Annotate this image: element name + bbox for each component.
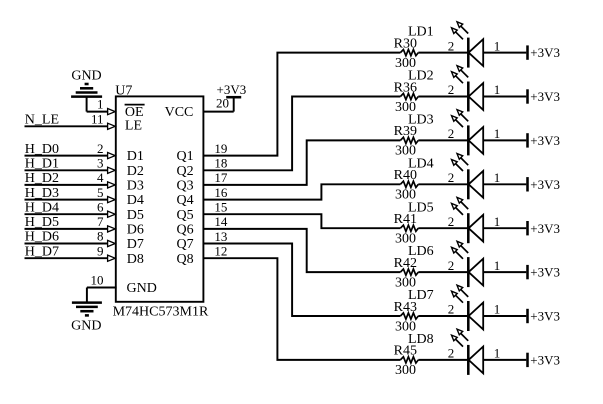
net label N_LE — [25, 112, 59, 127]
resistor R42 — [400, 269, 418, 275]
svg-text:1: 1 — [494, 302, 501, 317]
svg-text:+3V3: +3V3 — [530, 265, 560, 280]
power +3V3 row 2 — [526, 89, 529, 103]
svg-text:2: 2 — [448, 258, 455, 273]
svg-text:U7: U7 — [115, 84, 132, 99]
wire Q2 pin 18 to R36 — [203, 97, 401, 171]
R36 value 300 — [395, 100, 416, 115]
wire R30 to LD1 — [418, 52, 467, 54]
svg-text:H_D6: H_D6 — [25, 230, 59, 245]
svg-text:LD5: LD5 — [408, 200, 434, 215]
wire pin 10 to ground — [87, 287, 117, 289]
U7 part number M74HC573M1R — [113, 305, 209, 320]
LD3 label — [408, 113, 434, 128]
net label H_D2 — [25, 171, 59, 186]
pin 19 number label — [214, 141, 227, 156]
net label H_D5 — [25, 215, 59, 230]
svg-text:+3V3: +3V3 — [530, 221, 560, 236]
power +3V3 row 6 — [526, 265, 529, 279]
pin 16 number label — [214, 185, 228, 200]
svg-text:Q8: Q8 — [176, 252, 193, 267]
svg-text:+3V3: +3V3 — [530, 45, 560, 60]
resistor R30 — [400, 50, 418, 56]
pin 10 number label — [91, 273, 104, 288]
D1 pin name — [127, 149, 144, 164]
svg-text:Q7: Q7 — [176, 237, 193, 252]
LE pin name — [125, 119, 142, 134]
pin 9 D8 input arrowhead — [108, 255, 116, 261]
pin 6 number label — [97, 199, 104, 214]
R30 label — [394, 36, 417, 51]
svg-text:LD1: LD1 — [408, 25, 434, 40]
wire Q4 pin 16 to R40 — [203, 184, 401, 199]
resistor R43 — [400, 313, 418, 319]
+3V3 label row 3 — [530, 133, 560, 148]
svg-text:2: 2 — [448, 214, 455, 229]
pin 5 number label — [97, 185, 104, 200]
svg-text:Q5: Q5 — [176, 208, 193, 223]
pin 11 LE input arrowhead — [108, 123, 116, 129]
net label H_D0 — [25, 142, 59, 157]
pin 1 number label — [97, 97, 104, 112]
svg-text:H_D2: H_D2 — [25, 171, 59, 186]
svg-text:1: 1 — [494, 170, 501, 185]
svg-text:2: 2 — [448, 170, 455, 185]
svg-text:1: 1 — [494, 126, 501, 141]
svg-text:GND: GND — [127, 281, 157, 296]
+3V3 label row 8 — [530, 353, 560, 368]
svg-text:Q1: Q1 — [176, 149, 193, 164]
svg-text:11: 11 — [91, 111, 104, 126]
wire R36 to LD2 — [418, 96, 467, 98]
LD3 pin 2 label — [448, 126, 455, 141]
wire Q1 pin 19 to R30 — [203, 53, 401, 156]
wire H_D4 to pin 6 — [25, 213, 109, 215]
R45 value 300 — [395, 363, 416, 378]
R41 value 300 — [395, 232, 416, 247]
LED LD1 — [452, 22, 484, 68]
svg-text:LD8: LD8 — [408, 332, 434, 347]
svg-text:9: 9 — [97, 243, 104, 258]
R30 value 300 — [395, 56, 416, 71]
resistor R41 — [400, 225, 418, 231]
R43 value 300 — [395, 319, 416, 334]
wire Q3 pin 17 to R39 — [203, 140, 401, 185]
wire R41 to LD5 — [418, 227, 467, 229]
svg-text:GND: GND — [71, 69, 101, 84]
R39 label — [394, 124, 417, 139]
VCC pin name — [165, 105, 194, 120]
Q2 pin name — [176, 164, 193, 179]
svg-text:+3V3: +3V3 — [530, 177, 560, 192]
svg-text:14: 14 — [214, 214, 228, 229]
svg-text:Q3: Q3 — [176, 179, 193, 194]
wire LD3 to +3V3 row 3 — [483, 139, 526, 141]
svg-text:H_D7: H_D7 — [25, 244, 59, 259]
pin 3 D2 input arrowhead — [108, 167, 116, 173]
Q5 pin name — [176, 208, 193, 223]
LD8 pin 1 label — [494, 346, 501, 361]
svg-text:LD6: LD6 — [408, 244, 434, 259]
Q7 pin name — [176, 237, 193, 252]
svg-text:LD4: LD4 — [408, 156, 434, 171]
resistor R45 — [400, 357, 418, 363]
svg-text:Q6: Q6 — [176, 223, 193, 238]
wire H_D0 to pin 2 — [25, 155, 109, 157]
svg-text:+3V3: +3V3 — [217, 82, 247, 97]
LD2 pin 2 label — [448, 82, 455, 97]
wire LD7 to +3V3 row 7 — [483, 315, 526, 317]
Q6 pin name — [176, 223, 193, 238]
OE pin name with overline — [125, 105, 145, 121]
wire LD5 to +3V3 row 5 — [483, 227, 526, 229]
svg-text:18: 18 — [214, 156, 227, 171]
LD5 pin 2 label — [448, 214, 455, 229]
svg-text:VCC: VCC — [165, 105, 194, 120]
svg-text:8: 8 — [97, 229, 104, 244]
LD3 pin 1 label — [494, 126, 501, 141]
svg-text:D8: D8 — [127, 252, 144, 267]
resistor R40 — [400, 181, 418, 187]
svg-text:+3V3: +3V3 — [530, 353, 560, 368]
svg-text:2: 2 — [448, 346, 455, 361]
svg-text:1: 1 — [97, 97, 104, 112]
D3 pin name — [127, 179, 144, 194]
svg-text:4: 4 — [97, 170, 104, 185]
svg-text:H_D5: H_D5 — [25, 215, 59, 230]
power +3V3 row 5 — [526, 221, 529, 235]
LD1 pin 1 label — [494, 38, 501, 53]
power +3V3 row 3 — [526, 133, 529, 147]
U7 reference designator — [115, 84, 132, 99]
R41 label — [394, 212, 417, 227]
svg-text:D5: D5 — [127, 208, 144, 223]
net label H_D3 — [25, 186, 59, 201]
pin 8 D7 input arrowhead — [108, 240, 116, 246]
svg-text:15: 15 — [214, 200, 227, 215]
power +3V3 row 4 — [526, 177, 529, 191]
LED LD2 — [452, 66, 484, 112]
svg-text:7: 7 — [97, 214, 104, 229]
power +3V3 row 7 — [526, 309, 529, 323]
svg-text:1: 1 — [494, 258, 501, 273]
LD2 pin 1 label — [494, 82, 501, 97]
Q4 pin name — [176, 193, 193, 208]
R40 label — [394, 168, 417, 183]
R36 label — [394, 80, 417, 95]
pin 15 number label — [214, 200, 227, 215]
svg-text:2: 2 — [448, 38, 455, 53]
GND pin name — [127, 281, 157, 296]
pin 13 number label — [214, 229, 227, 244]
svg-text:300: 300 — [395, 363, 416, 378]
svg-text:Q2: Q2 — [176, 164, 193, 179]
svg-text:16: 16 — [214, 185, 228, 200]
svg-text:D2: D2 — [127, 164, 144, 179]
pin 6 D5 input arrowhead — [108, 211, 116, 217]
svg-text:1: 1 — [494, 38, 501, 53]
svg-text:+3V3: +3V3 — [530, 309, 560, 324]
LD1 pin 2 label — [448, 38, 455, 53]
R39 value 300 — [395, 144, 416, 159]
LED LD7 — [452, 285, 484, 331]
GND label top — [71, 69, 101, 84]
wire R45 to LD8 — [418, 359, 467, 361]
LED LD8 — [452, 329, 484, 375]
svg-text:20: 20 — [216, 96, 229, 111]
pin 2 number label — [97, 141, 104, 156]
+3V3 label row 4 — [530, 177, 560, 192]
svg-text:D3: D3 — [127, 179, 144, 194]
svg-text:5: 5 — [97, 185, 104, 200]
LED LD4 — [452, 154, 484, 200]
LED LD6 — [452, 241, 484, 287]
D8 pin name — [127, 252, 144, 267]
D6 pin name — [127, 223, 144, 238]
resistor R39 — [400, 137, 418, 143]
svg-text:LD2: LD2 — [408, 69, 434, 84]
pin 7 D6 input arrowhead — [108, 226, 116, 232]
pin 4 D3 input arrowhead — [108, 182, 116, 188]
svg-text:19: 19 — [214, 141, 227, 156]
svg-text:D6: D6 — [127, 223, 144, 238]
wire R39 to LD3 — [418, 139, 467, 141]
svg-text:GND: GND — [71, 319, 101, 334]
pin 3 number label — [97, 156, 104, 171]
LD6 pin 2 label — [448, 258, 455, 273]
svg-text:2: 2 — [448, 302, 455, 317]
svg-text:3: 3 — [97, 156, 104, 171]
wire LD1 to +3V3 row 1 — [483, 52, 526, 54]
+3V3 label row 1 — [530, 45, 560, 60]
ground symbol top (at pin 1 OE) — [71, 84, 102, 97]
pin 11 number label — [91, 111, 104, 126]
net label H_D7 — [25, 244, 59, 259]
svg-text:H_D0: H_D0 — [25, 142, 59, 157]
wire GND to pin 1 — [87, 96, 109, 111]
LD6 pin 1 label — [494, 258, 501, 273]
svg-text:H_D1: H_D1 — [25, 157, 59, 172]
LD1 label — [408, 25, 434, 40]
power +3V3 row 8 — [526, 353, 529, 367]
IC U7 M74HC573M1R body — [116, 96, 204, 301]
pin 7 number label — [97, 214, 104, 229]
wire LD6 to +3V3 row 6 — [483, 271, 526, 273]
resistor R36 — [400, 93, 418, 99]
+3V3 label row 5 — [530, 221, 560, 236]
svg-text:D4: D4 — [127, 193, 144, 208]
wire Q8 pin 12 to R45 — [203, 258, 401, 360]
LD5 label — [408, 200, 434, 215]
svg-text:D7: D7 — [127, 237, 144, 252]
D2 pin name — [127, 164, 144, 179]
svg-text:12: 12 — [214, 244, 227, 259]
+3V3 label row 7 — [530, 309, 560, 324]
svg-text:+3V3: +3V3 — [530, 133, 560, 148]
svg-text:2: 2 — [97, 141, 104, 156]
svg-text:10: 10 — [91, 273, 104, 288]
LD4 pin 2 label — [448, 170, 455, 185]
LD8 label — [408, 332, 434, 347]
R42 value 300 — [395, 275, 416, 290]
svg-text:Q4: Q4 — [176, 193, 193, 208]
svg-text:13: 13 — [214, 229, 227, 244]
pin 2 D1 input arrowhead — [108, 153, 116, 159]
svg-text:17: 17 — [214, 170, 228, 185]
power +3V3 at VCC — [226, 96, 241, 99]
svg-text:1: 1 — [494, 214, 501, 229]
pin 4 number label — [97, 170, 104, 185]
LD7 label — [408, 288, 434, 303]
Q8 pin name — [176, 252, 193, 267]
svg-text:H_D4: H_D4 — [25, 200, 59, 215]
LD4 pin 1 label — [494, 170, 501, 185]
LD4 label — [408, 156, 434, 171]
LED LD3 — [452, 110, 484, 156]
R43 label — [394, 300, 417, 315]
svg-text:LD3: LD3 — [408, 113, 434, 128]
Q1 pin name — [176, 149, 193, 164]
LD2 label — [408, 69, 434, 84]
Q3 pin name — [176, 179, 193, 194]
net label H_D1 — [25, 157, 59, 172]
LD6 label — [408, 244, 434, 259]
GND label bottom — [71, 319, 101, 334]
wire N_LE to pin 11 — [25, 125, 109, 127]
wire H_D7 to pin 9 — [25, 257, 109, 259]
ground symbol bottom (at pin 10) — [72, 288, 102, 316]
wire VCC pin 20 to +3V3 — [203, 97, 234, 111]
svg-text:6: 6 — [97, 199, 104, 214]
svg-text:1: 1 — [494, 346, 501, 361]
wire Q5 pin 15 to R41 — [203, 214, 401, 228]
svg-text:1: 1 — [494, 82, 501, 97]
LD5 pin 1 label — [494, 214, 501, 229]
LD7 pin 1 label — [494, 302, 501, 317]
pin 18 number label — [214, 156, 227, 171]
R45 label — [394, 344, 417, 359]
svg-text:LD7: LD7 — [408, 288, 434, 303]
net label H_D6 — [25, 230, 59, 245]
power +3V3 row 1 — [526, 45, 529, 59]
LED LD5 — [452, 197, 484, 243]
wire H_D3 to pin 5 — [25, 199, 109, 201]
pin 20 number label — [216, 96, 229, 111]
wire R40 to LD4 — [418, 183, 467, 185]
R40 value 300 — [395, 188, 416, 203]
svg-text:M74HC573M1R: M74HC573M1R — [113, 305, 209, 320]
+3V3 label row 2 — [530, 89, 560, 104]
+3V3 label row 6 — [530, 265, 560, 280]
R42 label — [394, 256, 417, 271]
wire LD8 to +3V3 row 8 — [483, 359, 526, 361]
wire Q7 pin 13 to R43 — [203, 244, 401, 317]
wire H_D6 to pin 8 — [25, 243, 109, 245]
svg-text:LE: LE — [125, 119, 142, 134]
svg-text:D1: D1 — [127, 149, 144, 164]
D4 pin name — [127, 193, 144, 208]
pin 8 number label — [97, 229, 104, 244]
svg-text:2: 2 — [448, 126, 455, 141]
LD8 pin 2 label — [448, 346, 455, 361]
pin 17 number label — [214, 170, 228, 185]
wire R43 to LD7 — [418, 315, 467, 317]
pin 9 number label — [97, 243, 104, 258]
+3V3 label at VCC — [217, 82, 247, 97]
D5 pin name — [127, 208, 144, 223]
pin 1 OE input arrowhead — [108, 109, 116, 115]
wire LD2 to +3V3 row 2 — [483, 96, 526, 98]
D7 pin name — [127, 237, 144, 252]
wire H_D5 to pin 7 — [25, 228, 109, 230]
svg-text:+3V3: +3V3 — [530, 89, 560, 104]
wire Q6 pin 14 to R42 — [203, 229, 401, 272]
pin 12 number label — [214, 244, 227, 259]
wire H_D2 to pin 4 — [25, 184, 109, 186]
svg-text:H_D3: H_D3 — [25, 186, 59, 201]
svg-text:2: 2 — [448, 82, 455, 97]
pin 5 D4 input arrowhead — [108, 197, 116, 203]
wire R42 to LD6 — [418, 271, 467, 273]
net label H_D4 — [25, 200, 59, 215]
pin 14 number label — [214, 214, 228, 229]
svg-text:N_LE: N_LE — [25, 112, 59, 127]
wire H_D1 to pin 3 — [25, 169, 109, 171]
wire LD4 to +3V3 row 4 — [483, 183, 526, 185]
LD7 pin 2 label — [448, 302, 455, 317]
